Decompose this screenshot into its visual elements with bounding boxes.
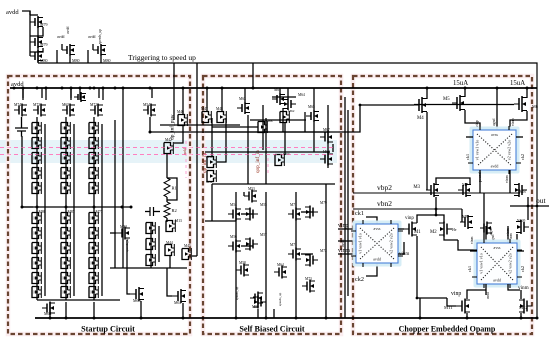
svg-text:avdd: avdd xyxy=(183,148,187,155)
transistor M59b xyxy=(250,292,263,305)
svg-text:out: out xyxy=(536,196,547,205)
transistor M54 xyxy=(143,104,156,117)
cell transistor col66 y128 xyxy=(61,122,70,134)
wire drop to avdd rail xyxy=(252,63,254,88)
transistor M3 xyxy=(426,183,439,197)
cell transistor col94 y158 xyxy=(89,152,98,164)
svg-text:ck2: ck2 xyxy=(520,266,525,272)
wire bias to M4 gate xyxy=(150,105,414,132)
wire sb h1 xyxy=(205,131,330,133)
transistor M9 xyxy=(460,215,473,229)
wire M5 source to rail xyxy=(464,88,466,97)
node mid x37 xyxy=(36,206,39,209)
transistor M64b xyxy=(274,266,287,279)
cell transistor col66 y158 xyxy=(61,152,70,164)
wire M57 down xyxy=(211,118,213,157)
node mid x122 xyxy=(121,206,124,209)
wire M3 drain to tail xyxy=(435,197,437,215)
svg-text:M73: M73 xyxy=(305,277,312,281)
transistor M71 xyxy=(288,208,301,221)
svg-text:agnd: agnd xyxy=(489,228,493,235)
transistor M2 xyxy=(439,222,452,237)
cell transistor mcol y244 xyxy=(146,238,155,250)
dashed box: Self Biased Circuit xyxy=(203,76,341,334)
wire M53 gate xyxy=(243,192,245,196)
node gnd x537 xyxy=(536,317,539,320)
node avdd x253 xyxy=(252,87,255,90)
transistor M71 xyxy=(288,248,301,261)
wire M46 row gates xyxy=(160,124,240,126)
cell transistor col37 y143 xyxy=(32,137,41,149)
wire ch2 out bottom xyxy=(398,242,404,254)
svg-text:v2 vsw2 v2o: v2 vsw2 v2o xyxy=(508,253,513,273)
svg-text:v1 vsw1 v1o: v1 vsw1 v1o xyxy=(475,140,480,160)
wire M74 drain to cap xyxy=(21,117,23,128)
cell transistor col94 y263 xyxy=(89,257,98,269)
wire M75 gnd xyxy=(273,309,275,318)
svg-text:M53: M53 xyxy=(248,187,255,191)
svg-text:v1 vsw1 v1o: v1 vsw1 v1o xyxy=(479,253,484,273)
svg-text:vinp: vinp xyxy=(451,291,461,297)
transistor M56 xyxy=(228,240,241,253)
svg-text:M9: M9 xyxy=(462,214,469,219)
transistor M55 xyxy=(245,208,258,221)
wire rail drop x46 xyxy=(45,88,47,100)
wire rail drop x23 xyxy=(22,88,24,100)
svg-text:v1 vsw1 v1o: v1 vsw1 v1o xyxy=(358,233,363,253)
cell transistor mcol y228 xyxy=(146,222,155,234)
wire M46 up xyxy=(182,88,184,115)
wire to M61 gate xyxy=(167,268,172,296)
svg-text:vbn2: vbn2 xyxy=(377,199,392,208)
wire ch3 down l xyxy=(485,284,487,295)
node gnd x50 xyxy=(49,317,52,320)
wire M59 down xyxy=(217,118,226,162)
svg-text:avss: avss xyxy=(491,132,498,137)
svg-text:avdd: avdd xyxy=(373,257,381,262)
wire cap left xyxy=(145,211,150,213)
cell transistor col94 y218 xyxy=(89,212,98,224)
wire column spine x=37 xyxy=(36,117,38,300)
wire cap down xyxy=(21,131,24,136)
transistor M7 xyxy=(458,183,471,197)
svg-text:M44: M44 xyxy=(166,241,173,245)
chopper block CH3 xyxy=(472,239,522,288)
wire g2 left down xyxy=(56,50,58,63)
node avdd x23 xyxy=(22,87,25,90)
transistor M44 xyxy=(165,244,174,256)
wire out xyxy=(510,205,549,207)
svg-text:M8: M8 xyxy=(519,190,526,195)
wire columns to M62 xyxy=(37,299,120,301)
wire M64 down xyxy=(304,112,306,132)
svg-text:M80: M80 xyxy=(39,210,46,214)
cell transistor col66 y188 xyxy=(61,182,70,194)
cell transistor col94 y188 xyxy=(89,182,98,194)
wire M42 to R1 xyxy=(166,153,168,178)
svg-text:vinp: vinp xyxy=(405,216,414,221)
wire g3 source down xyxy=(100,56,102,63)
node avdd x527 xyxy=(526,87,529,90)
node avdd x183 xyxy=(182,87,185,90)
wire ch2 out top xyxy=(398,228,404,230)
svg-text:15uA: 15uA xyxy=(453,80,468,87)
transistor M66 xyxy=(258,121,267,133)
resistor R2 xyxy=(164,202,170,218)
wire ground rail xyxy=(35,317,537,319)
svg-text:15uA: 15uA xyxy=(510,80,525,87)
wire M8 drain to out xyxy=(527,197,529,206)
svg-text:M3: M3 xyxy=(413,185,420,190)
wire mid in xyxy=(338,240,356,242)
wire sb pair3 gates xyxy=(241,245,253,247)
svg-text:M60: M60 xyxy=(133,298,141,303)
wire M60 gnd xyxy=(140,301,142,318)
wire trigger bus top/right xyxy=(38,63,537,318)
wire M11 gnd xyxy=(466,313,468,318)
wire M61 to rail xyxy=(279,88,281,93)
transistor M62 xyxy=(42,302,55,315)
highlight band xyxy=(0,140,337,163)
wire out to M10 xyxy=(527,206,529,220)
wire trigger gate rail xyxy=(29,11,31,56)
wire vbp2 rail xyxy=(353,192,520,194)
wire mid junction row xyxy=(22,206,130,208)
cell transistor col94 y173 xyxy=(89,167,98,179)
transistor M72 xyxy=(305,254,318,267)
capacitor under M74 xyxy=(15,128,28,131)
transistor M79 xyxy=(305,206,318,219)
wire tail to M3 xyxy=(435,209,437,215)
wire R1 to R2 xyxy=(166,197,168,202)
transistor M79 top xyxy=(30,16,43,28)
transistor M68 xyxy=(320,153,333,166)
wire sb v3 xyxy=(295,192,297,318)
wire into ch3 top l xyxy=(485,226,487,243)
wire sb v1 xyxy=(235,192,237,318)
wire sb v0 xyxy=(211,184,213,221)
svg-text:M12: M12 xyxy=(519,305,528,310)
transistor M71b xyxy=(74,92,86,102)
svg-text:He: He xyxy=(452,228,457,232)
svg-text:M58: M58 xyxy=(239,261,246,265)
svg-text:ck1: ck1 xyxy=(467,266,472,272)
svg-text:avss: avss xyxy=(494,245,501,250)
wire ch3 ck2 stub xyxy=(517,250,524,252)
cell transistor col37 y173 xyxy=(32,167,41,179)
svg-text:vbp2: vbp2 xyxy=(377,183,392,192)
wire M61 down xyxy=(282,108,284,132)
svg-text:R1: R1 xyxy=(172,186,177,191)
wire M62 to ground xyxy=(49,302,51,318)
node out2 xyxy=(527,205,530,208)
svg-text:M65: M65 xyxy=(62,103,69,107)
svg-text:vinm: vinm xyxy=(338,248,350,254)
svg-text:M5: M5 xyxy=(443,97,450,102)
wire M12 gnd xyxy=(520,313,522,318)
wire sb pair4 gates xyxy=(301,253,313,255)
wire rail drop x80 xyxy=(79,88,81,100)
node avdd x80 xyxy=(79,87,82,90)
transistor M45 xyxy=(182,248,191,260)
svg-text:M87: M87 xyxy=(68,210,75,214)
cell transistor col94 y248 xyxy=(89,242,98,254)
wire M2 drain to ch3 xyxy=(444,236,458,240)
svg-text:M80: M80 xyxy=(40,58,48,63)
svg-text:Chopper Embedded Opamp: Chopper Embedded Opamp xyxy=(399,325,496,334)
wire colC ground xyxy=(93,302,95,318)
node avdd x46 xyxy=(45,87,48,90)
transistor M42 xyxy=(164,142,173,154)
wire gap vertical a xyxy=(344,97,346,318)
wire column spine x=94 xyxy=(93,117,95,300)
svg-text:M79: M79 xyxy=(40,22,48,27)
svg-text:M2: M2 xyxy=(430,230,437,235)
transistor M53 xyxy=(244,190,257,203)
node bias b xyxy=(359,104,362,107)
wire sb top h120 xyxy=(250,119,306,121)
wire sb mid h xyxy=(205,220,236,222)
transistor M79 mid xyxy=(30,36,43,48)
cell transistor col94 y143 xyxy=(89,137,98,149)
transistor M48 xyxy=(217,111,226,123)
wire cap right xyxy=(154,211,161,213)
node vbn2 tail xyxy=(435,208,438,211)
svg-text:M13: M13 xyxy=(175,219,182,223)
svg-text:pound: pound xyxy=(478,172,482,182)
wire into ch3 top r xyxy=(507,226,509,243)
node avdd x222 xyxy=(221,87,224,90)
node gnd x326 xyxy=(325,317,328,320)
transistor M13 xyxy=(166,220,175,232)
cell transistor col37 y248 xyxy=(32,242,41,254)
transistor M11 xyxy=(456,299,470,314)
wire rail drop M73 xyxy=(41,88,43,98)
cell transistor col66 y263 xyxy=(61,257,70,269)
cell transistor col66 y278 xyxy=(61,272,70,284)
node avdd x207 xyxy=(206,87,209,90)
wire M44 down xyxy=(169,255,171,268)
wire ch3 ck1 stub xyxy=(470,250,477,252)
wire sb pair2 gates xyxy=(301,211,313,213)
svg-text:Self Biased Circuit: Self Biased Circuit xyxy=(239,325,305,334)
pink dashed trace 2 xyxy=(0,154,336,156)
wire to M60 gate xyxy=(127,268,130,294)
transistor M65 xyxy=(306,110,319,122)
node mid x131 xyxy=(130,206,133,209)
resistor R1 xyxy=(164,178,170,197)
wire drop to M46 xyxy=(173,63,175,120)
wire M4 drain down to vbp2 xyxy=(426,112,428,190)
wire M33 gate xyxy=(110,232,116,234)
transistor M8 xyxy=(514,183,527,197)
transistor M67 xyxy=(320,131,333,144)
wire bottom bus startup xyxy=(110,267,187,269)
transistor M5 xyxy=(452,95,465,111)
cell transistor col37 y233 xyxy=(32,227,41,239)
pink dashed vertical c xyxy=(267,158,269,176)
node avdd x150 xyxy=(149,87,152,90)
wire column return x=94 xyxy=(101,124,103,296)
node gnd x236 xyxy=(235,317,238,320)
wire sb top h127 xyxy=(212,126,258,128)
wire M54 drain down xyxy=(149,117,151,132)
svg-text:avdd: avdd xyxy=(493,278,501,283)
svg-text:vinm: vinm xyxy=(511,118,515,126)
svg-text:qop_inf_in: qop_inf_in xyxy=(254,150,261,173)
svg-text:avdd: avdd xyxy=(88,35,95,39)
svg-text:M52: M52 xyxy=(206,180,213,184)
transistor M72 xyxy=(90,104,103,117)
node xyxy=(435,214,438,217)
svg-text:vinm: vinm xyxy=(505,175,509,183)
wire M67-M68 xyxy=(332,144,334,152)
wire M48 up xyxy=(221,88,223,112)
wire M47 up xyxy=(206,88,208,112)
wire sb top h97 xyxy=(272,96,296,98)
svg-text:M64: M64 xyxy=(277,263,284,267)
wire colB ground xyxy=(65,302,67,318)
wire M61 gnd xyxy=(182,303,184,318)
wire M65 to rail xyxy=(313,88,315,110)
transistor M60 xyxy=(130,287,144,301)
svg-text:M80: M80 xyxy=(72,58,80,63)
svg-text:vinm: vinm xyxy=(518,285,529,291)
node gnd x420 xyxy=(419,317,422,320)
node gnd x183 xyxy=(182,317,185,320)
wire vinm in xyxy=(338,253,356,255)
svg-text:vinm: vinm xyxy=(470,236,474,244)
wire M10 down xyxy=(516,234,518,243)
cell transistor col66 y233 xyxy=(61,227,70,239)
transistor M62 xyxy=(280,111,289,123)
node gnd x521 xyxy=(520,317,523,320)
wire column spine x=66 xyxy=(65,117,67,300)
svg-text:avdd: avdd xyxy=(66,27,70,34)
node gnd x467 xyxy=(466,317,469,320)
wire M63 to rail xyxy=(244,88,246,102)
svg-text:M72: M72 xyxy=(90,103,97,107)
node avdd x103 xyxy=(102,87,105,90)
wire M33 down xyxy=(126,240,128,268)
wire g2 source down xyxy=(69,56,71,63)
wire M62 to M60 xyxy=(284,122,286,155)
wire M12 top xyxy=(520,290,522,299)
wire diff pair tail xyxy=(417,215,444,223)
wire left branch to colA xyxy=(22,136,33,207)
cell transistor col66 y248 xyxy=(61,242,70,254)
svg-text:M1: M1 xyxy=(414,230,421,235)
dashed box: Chopper Embedded Opamp xyxy=(353,76,532,334)
svg-text:dp_inf_psw: dp_inf_psw xyxy=(169,114,176,140)
transistor M12 xyxy=(519,299,532,314)
wire vbn2 drop xyxy=(461,209,463,222)
wire ch1 out right down xyxy=(509,170,511,193)
node avdd x115 xyxy=(114,87,117,90)
wire g3 gate xyxy=(92,44,94,50)
wire M3 M7 tops xyxy=(436,178,470,184)
wire ck1 into ch2 xyxy=(366,217,377,224)
transistor M33 xyxy=(116,227,130,240)
transistor M64 xyxy=(283,98,296,110)
node mid x94 xyxy=(93,206,96,209)
svg-text:vinm: vinm xyxy=(399,252,409,257)
transistor M58 xyxy=(236,264,249,277)
cell transistor col94 y233 xyxy=(89,227,98,239)
transistor M80 a xyxy=(62,44,75,56)
chopper block CH2 xyxy=(351,220,403,267)
node gnd x94 xyxy=(93,317,96,320)
wire ch1 ck2 stub xyxy=(516,136,523,138)
svg-text:avdd: avdd xyxy=(57,35,64,39)
svg-text:M68: M68 xyxy=(323,150,330,154)
wire trigger to M45 xyxy=(192,255,197,257)
svg-text:M7: M7 xyxy=(462,182,469,187)
transistor M63 xyxy=(237,102,250,114)
wire to ch3 left xyxy=(458,240,477,250)
wire drop between boxes xyxy=(196,63,198,256)
transistor M6 xyxy=(514,96,527,112)
pink dashed trace 1 xyxy=(0,147,336,149)
transistor M4 xyxy=(414,97,427,113)
dashed box: Startup Circuit xyxy=(8,76,190,334)
transistor M73 xyxy=(33,104,46,117)
cell transistor col37 y128 xyxy=(32,122,41,134)
wire rail drop M54 xyxy=(151,88,153,98)
wire M66 down xyxy=(265,118,267,184)
node avdd x62 xyxy=(61,87,64,90)
transistor M1 xyxy=(404,222,417,237)
svg-text:ck1: ck1 xyxy=(355,210,364,217)
wire ch3 down r xyxy=(508,284,520,290)
wire g2 gate xyxy=(61,44,63,50)
transistor M46 xyxy=(178,114,187,126)
node avdd x427 xyxy=(426,87,429,90)
wire avdd stub xyxy=(22,11,30,15)
node mid x22 xyxy=(21,206,24,209)
svg-text:Triggering to speed up: Triggering to speed up xyxy=(128,53,196,62)
transistor M60 xyxy=(275,154,284,166)
wire M4 source to rail xyxy=(426,88,428,99)
svg-text:M61: M61 xyxy=(174,300,182,305)
svg-text:ck2: ck2 xyxy=(520,154,525,160)
wire diode loop 2 xyxy=(30,48,43,52)
capacitor near M33 xyxy=(150,207,154,216)
cell transistor col66 y218 xyxy=(61,212,70,224)
pink dashed trace overlay 2 xyxy=(0,154,336,156)
svg-text:M80: M80 xyxy=(103,58,111,63)
wire long vertical b xyxy=(122,89,124,268)
cell transistor col37 y263 xyxy=(32,257,41,269)
node avdd x37 xyxy=(36,87,39,90)
node gnd x266 xyxy=(265,317,268,320)
svg-text:vinp: vinp xyxy=(338,223,348,229)
wire rail drop x103 xyxy=(102,88,104,100)
wire M46 to M42 xyxy=(174,125,183,143)
svg-text:M64: M64 xyxy=(298,93,305,97)
node avdd x14 xyxy=(13,87,16,90)
svg-text:R2: R2 xyxy=(172,208,177,213)
cell transistor col66 y292 xyxy=(61,286,70,298)
wire M6 source to rail xyxy=(526,88,528,98)
node gnd x66 xyxy=(65,317,68,320)
wire sb v2 xyxy=(265,192,267,318)
wire vbn2 rail xyxy=(353,208,462,210)
wire vinp in xyxy=(338,228,356,230)
wire agnd drop to chopper1 xyxy=(496,88,498,130)
node bias a xyxy=(149,131,152,134)
wire right col spine xyxy=(327,105,329,168)
